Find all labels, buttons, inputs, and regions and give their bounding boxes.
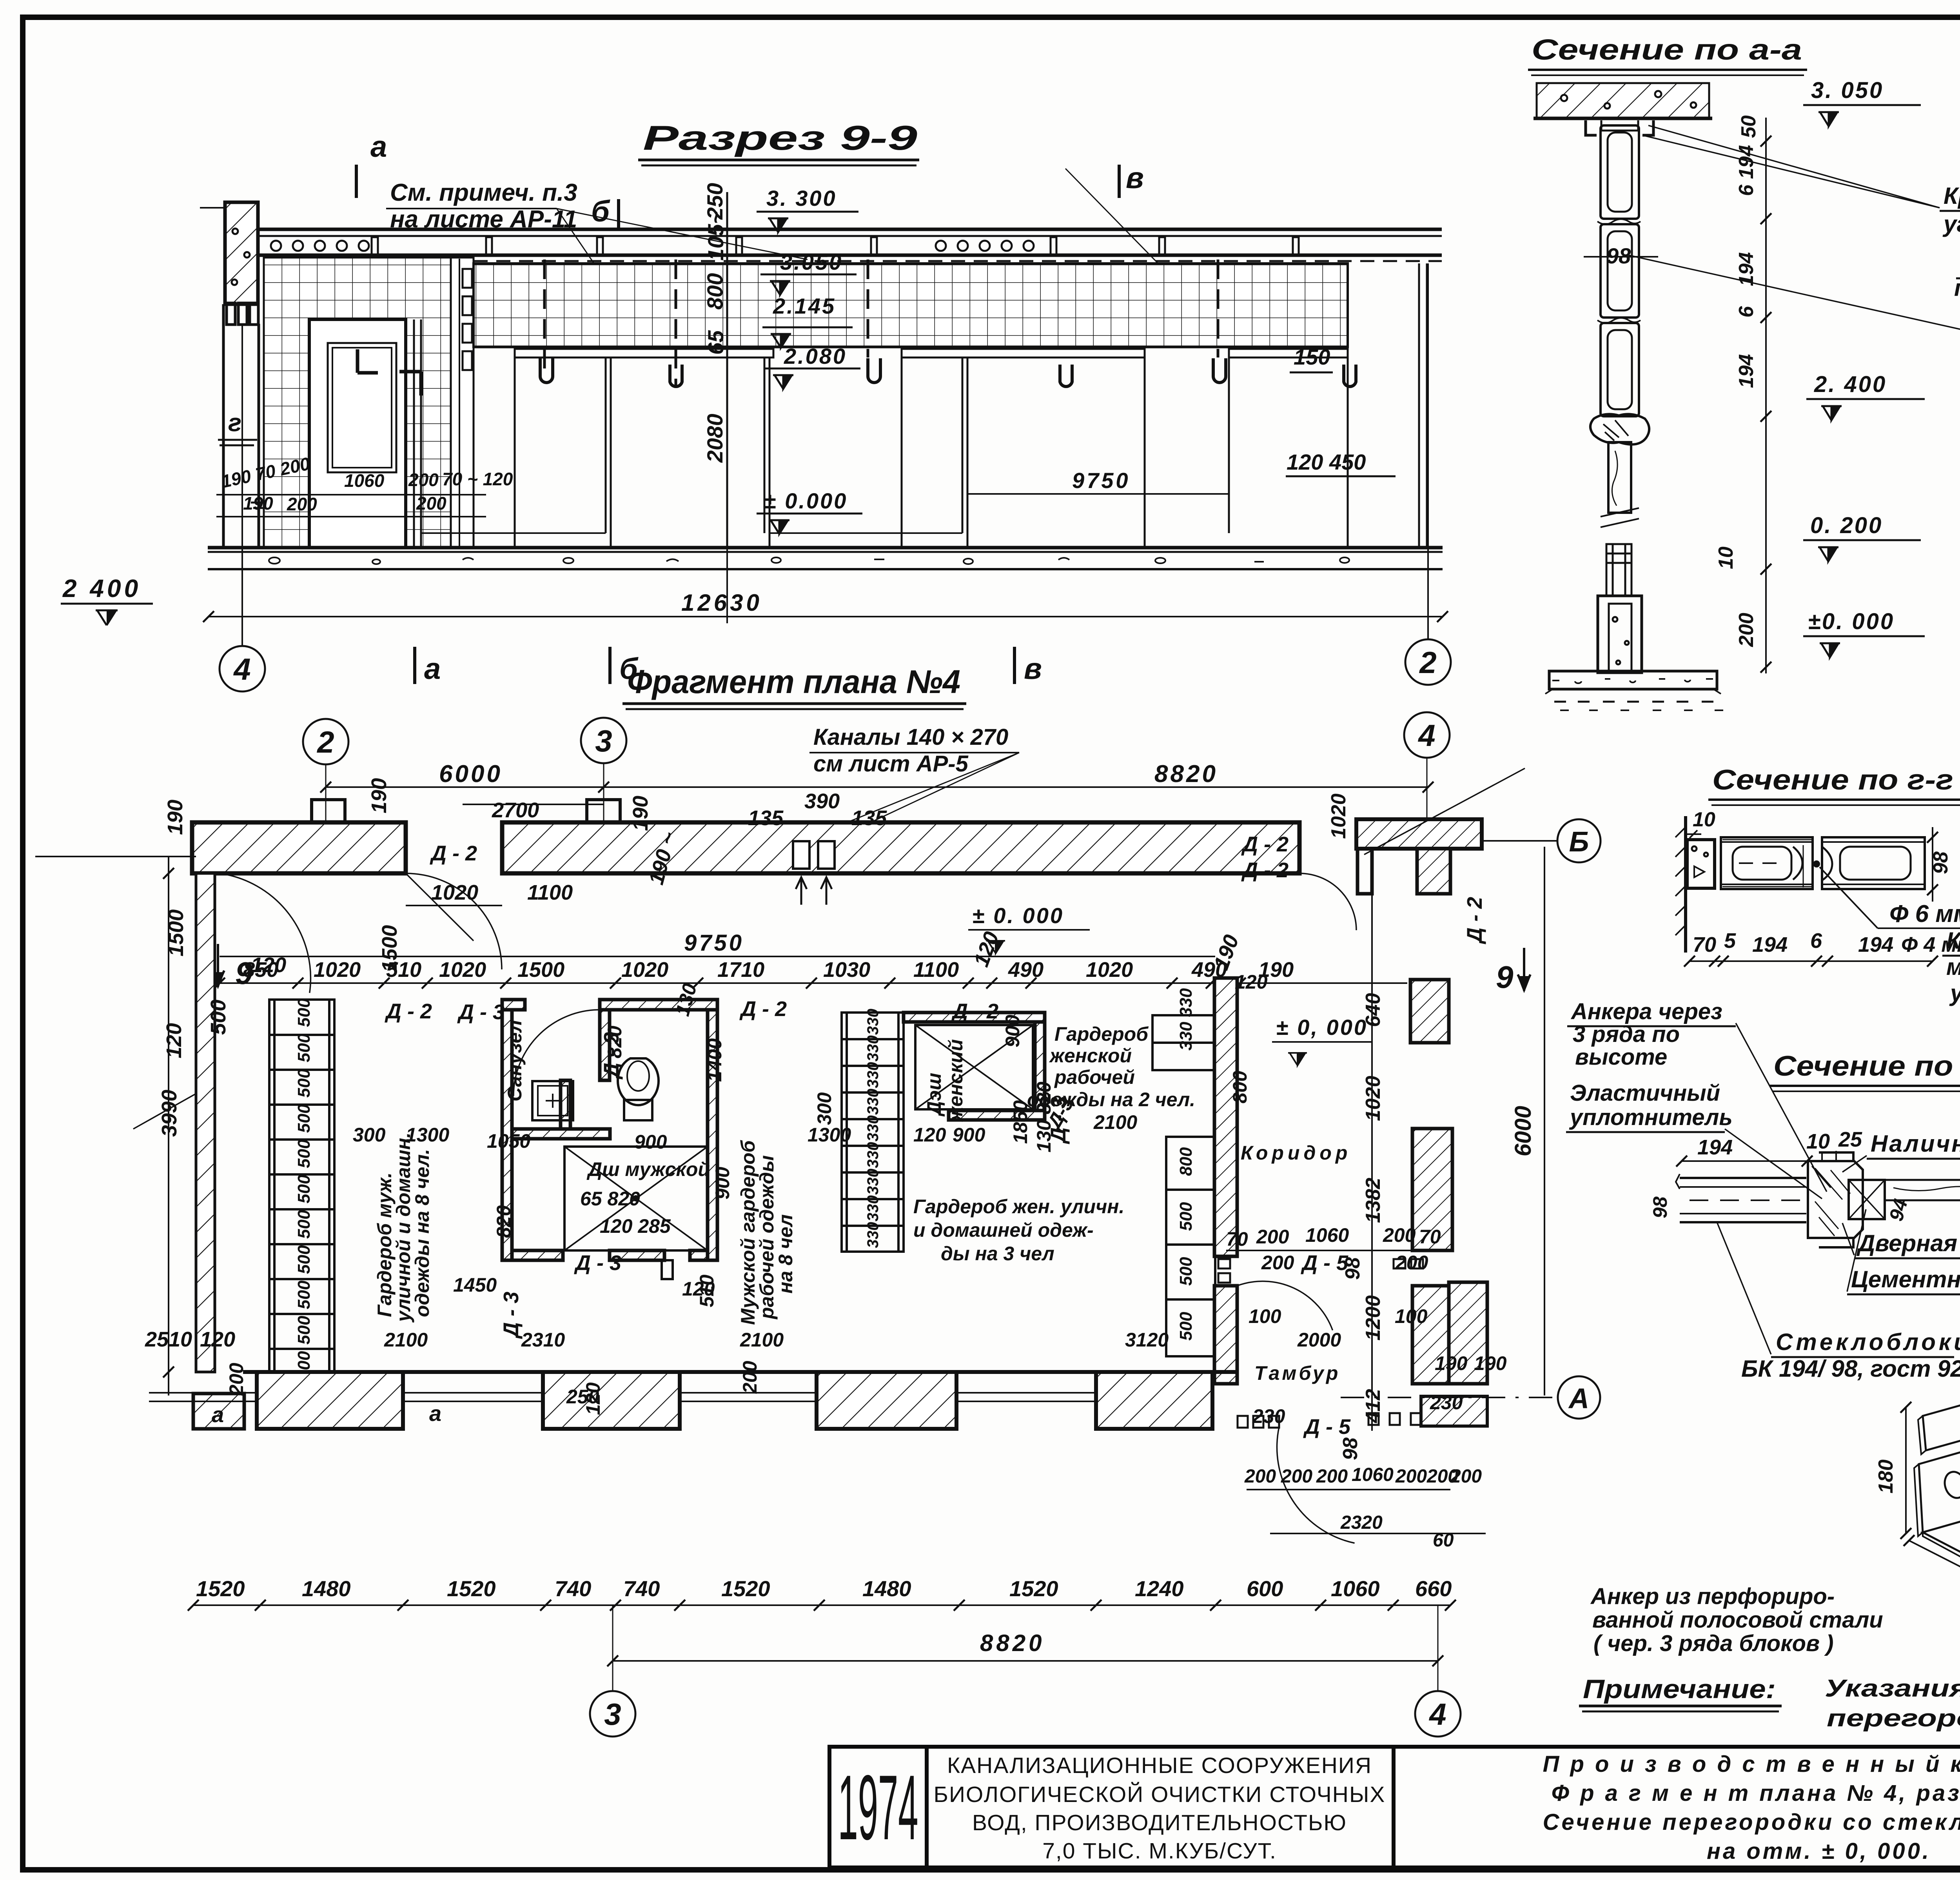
svg-text:200: 200 (1395, 1466, 1427, 1487)
svg-text:3.050: 3.050 (780, 250, 843, 274)
svg-text:194: 194 (1735, 354, 1758, 388)
beam panel dividers (372, 237, 1299, 254)
svg-text:230: 230 (1430, 1392, 1463, 1414)
svg-text:КАНАЛИЗАЦИОННЫЕ СООРУЖЕНИЯ: КАНАЛИЗАЦИОННЫЕ СООРУЖЕНИЯ (947, 1753, 1372, 1778)
svg-text:± 0. 000: ± 0. 000 (972, 903, 1064, 928)
corridor wall (1214, 978, 1237, 1256)
rack strip 2 (330) (842, 1013, 904, 1252)
right member (wood) (1885, 1180, 1960, 1200)
svg-text:200: 200 (1281, 1466, 1312, 1487)
ANCHOR DETAIL (1590, 1400, 1960, 1656)
svg-text:1300: 1300 (808, 1124, 851, 1146)
svg-text:БК 194/ 98, гост 9272 - 66: БК 194/ 98, гост 9272 - 66 (1741, 1356, 1960, 1382)
dims (1905, 1407, 1907, 1533)
svg-text:2: 2 (316, 725, 334, 759)
SECTION 9-9 (top left elevation) (61, 118, 1451, 691)
svg-text:900: 900 (953, 1124, 985, 1146)
svg-text:500: 500 (294, 1104, 314, 1133)
svg-text:200: 200 (739, 1361, 761, 1394)
axis B circle (1482, 840, 1557, 842)
svg-text:500: 500 (294, 1174, 314, 1203)
end block (1687, 840, 1715, 888)
U door hooks (540, 358, 1356, 387)
svg-text:1400: 1400 (704, 1038, 726, 1082)
svg-text:500: 500 (1176, 1312, 1196, 1341)
concrete tie lump (1590, 414, 1649, 444)
joint dot (1813, 860, 1820, 867)
axis circles (241, 325, 243, 646)
locker strip 1 (269, 1000, 334, 1420)
svg-text:1520: 1520 (447, 1576, 496, 1601)
svg-text:1240: 1240 (1135, 1576, 1184, 1601)
svg-text:1020: 1020 (621, 958, 668, 982)
svg-text:0. 200: 0. 200 (1810, 513, 1883, 538)
SECTION V-V (1942, 710, 1960, 1463)
svg-text:Д - 2: Д - 2 (1241, 833, 1289, 856)
svg-text:±0. 000: ±0. 000 (1808, 609, 1895, 634)
svg-text:Анкер из перфориро-: Анкер из перфориро- (1590, 1584, 1835, 1609)
svg-text:200: 200 (1450, 1466, 1482, 1487)
svg-text:1382: 1382 (1362, 1178, 1385, 1223)
svg-text:1520: 1520 (1009, 1576, 1058, 1601)
svg-text:330: 330 (864, 1169, 882, 1195)
right side dim chain & levels (702, 183, 1366, 513)
dims (1682, 1160, 1807, 1162)
dims near top wall (163, 778, 887, 972)
left rotated dims (145, 953, 286, 1351)
svg-text:6: 6 (1810, 929, 1822, 953)
right glassblock band (474, 263, 1348, 347)
svg-text:Гардероб: Гардероб (1054, 1023, 1149, 1045)
tambour bottom door blocks (1238, 1413, 1421, 1428)
svg-text:Наличник: Наличник (1871, 1131, 1960, 1157)
svg-text:9750: 9750 (1072, 468, 1131, 493)
svg-text:Д - 2: Д - 2 (1463, 897, 1486, 944)
glass blocks column (1601, 125, 1639, 416)
right labels (1741, 1131, 1960, 1382)
hollow core circles row 1 (271, 241, 281, 251)
right dim chain (1765, 118, 1767, 673)
svg-text:2100: 2100 (740, 1329, 784, 1351)
glass block 1 (1721, 837, 1813, 889)
svg-text:12630: 12630 (681, 590, 762, 616)
svg-text:500: 500 (294, 1033, 314, 1062)
svg-text:2 400: 2 400 (62, 574, 141, 602)
svg-text:Анкера через: Анкера через (1570, 999, 1722, 1024)
horizontal room labels (580, 1023, 1351, 1384)
svg-text:200: 200 (416, 493, 446, 514)
svg-text:1520: 1520 (721, 1576, 770, 1601)
svg-text:500: 500 (294, 1245, 314, 1274)
svg-text:Д - 2: Д - 2 (385, 1000, 432, 1023)
svg-text:2.145: 2.145 (773, 294, 836, 318)
svg-text:одежды на 8 чел.: одежды на 8 чел. (411, 1149, 433, 1317)
svg-text:120: 120 (913, 1124, 946, 1146)
svg-text:900: 900 (1002, 1014, 1024, 1047)
svg-text:600: 600 (1247, 1576, 1283, 1601)
interior dims (225, 971, 1341, 1415)
right jamb strip with hinge squares (451, 258, 474, 548)
hollow core circles row 2 (936, 241, 946, 251)
svg-text:Д - 2: Д - 2 (951, 1000, 998, 1023)
svg-text:70: 70 (1693, 933, 1716, 956)
bottom axis circles (612, 1605, 613, 1691)
svg-text:200: 200 (408, 470, 439, 490)
right lockers (1152, 1015, 1215, 1356)
floor slab (1549, 671, 1717, 689)
svg-text:412: 412 (1362, 1389, 1385, 1423)
svg-text:1500: 1500 (517, 958, 564, 982)
svg-text:98: 98 (1649, 1196, 1671, 1218)
svg-text:г: г (228, 408, 241, 437)
cut mark b top (617, 199, 620, 230)
svg-text:330: 330 (864, 1115, 882, 1141)
svg-text:10: 10 (1715, 546, 1737, 569)
svg-text:194: 194 (1858, 933, 1893, 956)
svg-text:уголки ∟50 × 50: уголки ∟50 × 50 (1949, 980, 1960, 1006)
levels (1808, 78, 1895, 634)
lintel ledges under band (515, 349, 773, 357)
door opening in tile wall (309, 319, 406, 548)
svg-text:100: 100 (1395, 1305, 1428, 1327)
svg-text:женский: женский (945, 1039, 967, 1122)
FLOOR PLAN (35, 663, 1601, 1737)
svg-text:510: 510 (386, 958, 421, 982)
svg-text:см лист АР-5: см лист АР-5 (813, 751, 969, 777)
svg-text:Сечение по д-д: Сечение по д-д (1773, 1051, 1960, 1082)
cut mark v top (1118, 165, 1121, 198)
svg-text:1480: 1480 (862, 1576, 911, 1601)
svg-text:1300: 1300 (406, 1124, 449, 1146)
svg-text:300: 300 (353, 1124, 386, 1146)
svg-text:640: 640 (1362, 993, 1385, 1027)
svg-text:330: 330 (864, 1222, 882, 1248)
axis A circle (1341, 1397, 1556, 1398)
svg-text:Д - 2: Д - 2 (1241, 858, 1289, 882)
svg-text:190: 190 (367, 778, 391, 813)
svg-text:1450: 1450 (453, 1274, 497, 1296)
svg-text:Д - 2: Д - 2 (739, 997, 787, 1021)
svg-text:190: 190 (243, 493, 273, 514)
svg-text:330: 330 (864, 1009, 882, 1035)
svg-text:820: 820 (493, 1205, 515, 1238)
wooden stud (1608, 442, 1631, 513)
svg-text:800: 800 (702, 273, 727, 310)
top wall: segment 1 (192, 822, 1299, 873)
svg-text:135: 135 (748, 806, 784, 830)
svg-text:180: 180 (1875, 1459, 1897, 1493)
svg-text:820: 820 (604, 1025, 626, 1058)
svg-text:500: 500 (1176, 1257, 1196, 1286)
svg-text:2510: 2510 (145, 1328, 192, 1351)
labels (1946, 927, 1960, 1198)
svg-text:женской: женской (1049, 1045, 1132, 1067)
svg-text:П р о и з в о д с т в е н н ы: П р о и з в о д с т в е н н ы й к о р п … (1543, 1751, 1960, 1777)
svg-text:330: 330 (864, 1089, 882, 1115)
svg-text:9: 9 (1496, 960, 1514, 994)
svg-text:а: а (424, 652, 441, 686)
svg-text:1100: 1100 (913, 958, 959, 982)
svg-text:Эластичный: Эластичный (1570, 1080, 1720, 1106)
svg-text:Д - 3: Д - 3 (499, 1292, 523, 1339)
NOTE (1579, 1674, 1960, 1732)
svg-text:Дш мужской: Дш мужской (586, 1158, 710, 1180)
svg-text:120: 120 (251, 953, 286, 977)
svg-text:См. примеч. п.3: См. примеч. п.3 (390, 179, 577, 206)
svg-text:500: 500 (207, 1000, 230, 1035)
svg-text:Каналы 140 × 270: Каналы 140 × 270 (813, 724, 1008, 750)
svg-text:Ф р а г м е н т плана № 4,: Ф р а г м е н т плана № 4, разрез 9 – 9. (1552, 1780, 1960, 1806)
svg-text:740: 740 (555, 1576, 591, 1601)
svg-text:1480: 1480 (302, 1576, 351, 1601)
svg-text:120 285: 120 285 (600, 1215, 671, 1237)
svg-text:Д - 5: Д - 5 (1303, 1415, 1351, 1439)
2080/other vertical dim line (726, 548, 728, 623)
svg-text:6000: 6000 (439, 760, 503, 788)
svg-text:6000: 6000 (1510, 1106, 1536, 1156)
svg-text:БИОЛОГИЧЕСКОЙ ОЧИСТКИ СТОЧНЫХ: БИОЛОГИЧЕСКОЙ ОЧИСТКИ СТОЧНЫХ (934, 1782, 1386, 1807)
svg-text:500: 500 (294, 998, 314, 1027)
svg-text:1030: 1030 (823, 958, 870, 982)
svg-text:660: 660 (1415, 1576, 1452, 1601)
svg-text:330: 330 (864, 1035, 882, 1062)
svg-text:перегородок см. лист АР: перегородок см. лист АР-11 (1827, 1705, 1960, 1732)
svg-text:1200: 1200 (1362, 1295, 1385, 1341)
svg-text:Разрез 9-9: Разрез 9-9 (643, 118, 917, 157)
svg-text:7,0 ТЫС. М.КУБ/СУТ.: 7,0 ТЫС. М.КУБ/СУТ. (1042, 1838, 1277, 1864)
sink (532, 1081, 573, 1120)
svg-text:1020: 1020 (431, 881, 478, 904)
section 9 marks (212, 944, 224, 987)
svg-text:А: А (1568, 1383, 1589, 1414)
9750 dim row (220, 956, 1215, 957)
door labels (385, 833, 1486, 1439)
svg-text:1850: 1850 (1009, 1100, 1031, 1144)
top right T wall (1356, 819, 1482, 849)
svg-text:1020: 1020 (439, 958, 486, 982)
svg-text:Дэш: Дэш (923, 1073, 945, 1117)
top beam band (258, 228, 1442, 231)
svg-text:6: 6 (1735, 306, 1758, 318)
top axis line (326, 786, 1428, 788)
cut mark a top (355, 165, 358, 198)
svg-text:Фрагмент плана №4: Фрагмент плана №4 (627, 663, 960, 700)
svg-text:Б: Б (1569, 826, 1589, 858)
svg-text:Стеклоблоки: Стеклоблоки (1776, 1329, 1960, 1355)
svg-text:190: 190 (1435, 1352, 1468, 1374)
svg-text:105~: 105~ (703, 211, 728, 261)
svg-text:8820: 8820 (980, 1630, 1045, 1656)
right walls (1410, 980, 1449, 1043)
svg-text:500: 500 (294, 1280, 314, 1309)
svg-text:3120: 3120 (1125, 1329, 1169, 1351)
svg-text:Ф 4 мм: Ф 4 мм (1901, 933, 1960, 956)
room labels rotated (374, 1020, 967, 1325)
svg-text:в: в (1126, 162, 1144, 195)
vertical 6000 dim right (1544, 847, 1545, 1395)
dimension texts under door (219, 453, 513, 514)
svg-text:330: 330 (864, 1062, 882, 1088)
svg-text:330 330: 330 330 (1176, 988, 1196, 1051)
svg-text:Гардероб жен. уличн.: Гардероб жен. уличн. (913, 1196, 1124, 1218)
svg-text:100: 100 (1249, 1305, 1281, 1327)
svg-text:± 0, 000: ± 0, 000 (1276, 1015, 1368, 1040)
svg-text:3: 3 (604, 1697, 621, 1731)
sanitary block (502, 1000, 717, 1260)
door swing arcs (133, 768, 1525, 1543)
svg-text:2.080: 2.080 (784, 344, 847, 368)
svg-text:120: 120 (582, 1382, 604, 1415)
svg-text:Д - 3: Д - 3 (457, 1000, 505, 1024)
svg-text:Примечание:: Примечание: (1583, 1674, 1776, 1704)
F 6mm label (1820, 867, 1878, 928)
svg-text:200: 200 (287, 494, 317, 514)
label (1590, 1584, 1883, 1656)
left wall hatched (225, 202, 258, 304)
svg-text:2000: 2000 (1297, 1329, 1341, 1351)
svg-text:3. 300: 3. 300 (766, 186, 837, 211)
svg-text:200: 200 (1395, 1252, 1428, 1274)
svg-text:1060: 1060 (1352, 1464, 1394, 1485)
svg-text:65: 65 (703, 330, 728, 355)
svg-text:500: 500 (1176, 1202, 1196, 1231)
svg-text:50: 50 (1737, 115, 1760, 138)
svg-text:120: 120 (1235, 971, 1268, 993)
svg-text:390: 390 (804, 789, 840, 813)
svg-text:а: а (429, 1401, 441, 1426)
svg-text:120: 120 (200, 1328, 235, 1351)
svg-text:2100: 2100 (384, 1329, 428, 1351)
svg-text:Крепежн. металлич.: Крепежн. металлич. (1944, 183, 1960, 209)
svg-text:Дверная коробка: Дверная коробка (1856, 1230, 1960, 1256)
svg-text:150: 150 (1294, 345, 1330, 369)
svg-text:70: 70 (1419, 1226, 1441, 1248)
svg-text:1060: 1060 (344, 470, 385, 491)
svg-text:уголки ∟ 50 × 50: уголки ∟ 50 × 50 (1942, 211, 1960, 237)
bottom dims (1690, 960, 1933, 962)
svg-text:Сечение перегородки со сте: Сечение перегородки со стеклоблоками (1543, 1809, 1960, 1835)
left tile wall (264, 258, 451, 548)
svg-text:190: 190 (629, 796, 652, 831)
TITLE BLOCK (829, 1747, 1960, 1867)
SECTION A-A (1528, 33, 1960, 710)
corridor door blocks (D-5) (1218, 1259, 1423, 1283)
svg-text:Д - 3: Д - 3 (574, 1251, 621, 1275)
ceiling slab (1537, 82, 1709, 84)
svg-text:300: 300 (813, 1092, 835, 1125)
SECTION G-G (1675, 764, 1960, 967)
svg-text:98: 98 (1606, 243, 1631, 268)
svg-text:200: 200 (1735, 613, 1758, 647)
svg-text:200: 200 (1316, 1466, 1348, 1487)
svg-text:98: 98 (1339, 1437, 1362, 1460)
svg-text:5: 5 (1724, 929, 1736, 953)
svg-text:1974: 1974 (838, 1756, 918, 1859)
svg-text:900: 900 (634, 1131, 667, 1153)
svg-text:200: 200 (1244, 1466, 1276, 1487)
svg-text:ванной полосовой стали: ванной полосовой стали (1592, 1607, 1883, 1633)
corridor opening dims (1226, 1224, 1507, 1427)
svg-text:а: а (212, 1402, 224, 1427)
svg-text:2100: 2100 (1093, 1111, 1137, 1133)
svg-text:8820: 8820 (1154, 760, 1218, 788)
svg-text:1060: 1060 (1331, 1576, 1380, 1601)
left wall (1684, 816, 1687, 953)
svg-text:на отм. ± 0, 000.: на отм. ± 0, 000. (1707, 1838, 1931, 1864)
svg-text:Сечение по а-а: Сечение по а-а (1532, 33, 1802, 66)
svg-text:4: 4 (1428, 1697, 1446, 1731)
svg-text:б: б (591, 195, 610, 228)
svg-text:2. 400: 2. 400 (1814, 372, 1887, 397)
svg-text:70: 70 (1226, 1228, 1248, 1250)
window lines in gaps (149, 1393, 1096, 1401)
svg-text:330: 330 (864, 1142, 882, 1168)
svg-text:металлические: металлические (1946, 954, 1960, 980)
door stub below shower (662, 1260, 673, 1279)
svg-text:1050: 1050 (487, 1130, 530, 1152)
svg-text:Ф 6 мм: Ф 6 мм (1889, 900, 1960, 927)
svg-text:Сечение по г-г: Сечение по г-г (1712, 764, 1953, 796)
break (1601, 508, 1639, 527)
bottom dim row 2 : 8820 (613, 1660, 1438, 1662)
svg-text:1710: 1710 (717, 958, 764, 982)
svg-text:в: в (1024, 652, 1042, 686)
SECTION D-D (1566, 999, 1960, 1382)
vertical plate with hole (1919, 1446, 1960, 1532)
svg-text:и домашней одеж-: и домашней одеж- (913, 1219, 1094, 1241)
dashed line under beam (474, 260, 1442, 262)
svg-text:10: 10 (1693, 808, 1715, 831)
left outer wall (196, 873, 215, 1372)
svg-text:2700: 2700 (492, 798, 539, 822)
svg-text:а: а (370, 130, 387, 163)
top-left labels (1569, 999, 1733, 1130)
shared labels with leaders (1942, 183, 1960, 468)
toilet (618, 1058, 659, 1105)
svg-text:1020: 1020 (1086, 958, 1133, 982)
svg-text:Коридор: Коридор (1241, 1142, 1351, 1164)
svg-text:200: 200 (1256, 1226, 1289, 1248)
svg-text:( чер. 3 ряда блоков ): ( чер. 3 ряда блоков ) (1593, 1631, 1834, 1656)
floor (208, 546, 1443, 550)
12630 dim (209, 616, 1443, 617)
svg-text:10: 10 (1806, 1130, 1830, 1153)
svg-text:330: 330 (864, 1195, 882, 1221)
svg-text:500: 500 (294, 1316, 314, 1345)
svg-text:490: 490 (1008, 958, 1044, 982)
svg-text:3. 050: 3. 050 (1811, 78, 1884, 103)
svg-text:135: 135 (851, 806, 887, 830)
svg-text:740: 740 (623, 1576, 660, 1601)
svg-text:190: 190 (163, 800, 187, 835)
base plate with notch (1923, 1514, 1960, 1566)
fixing angles (1586, 120, 1653, 135)
svg-text:1020: 1020 (314, 958, 361, 982)
top small plate (1923, 1400, 1960, 1450)
svg-text:190: 190 (1474, 1352, 1507, 1374)
female shower room (904, 1013, 1045, 1120)
svg-text:1060: 1060 (1305, 1224, 1349, 1246)
svg-text:1020: 1020 (1327, 793, 1350, 839)
svg-text:на 8 чел: на 8 чел (775, 1214, 797, 1294)
svg-text:уплотнитель: уплотнитель (1569, 1105, 1733, 1130)
bottom dim row 1 (193, 1604, 1450, 1606)
svg-text:2: 2 (1419, 645, 1436, 680)
svg-text:9750: 9750 (684, 930, 744, 956)
svg-text:Д - 2: Д - 2 (430, 842, 477, 865)
glass block 2 (1822, 837, 1925, 889)
flue channels in wall (793, 841, 835, 869)
